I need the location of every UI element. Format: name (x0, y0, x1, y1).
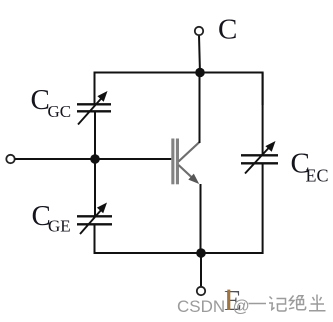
capacitor C_GE (variable) (77, 203, 112, 235)
wire: top horizontal rail (95, 73, 263, 106)
wire: gate horizontal (15, 158, 171, 160)
node: gate junction (90, 154, 100, 164)
wire: bottom horizontal rail (95, 164, 263, 254)
watermark chinese char jue (289, 295, 306, 310)
node: bottom junction (196, 248, 206, 258)
watermark chinese char yi (249, 303, 267, 305)
svg-text:EC: EC (306, 166, 329, 186)
wire: left branch middle segment (94, 113, 96, 216)
node: top junction (195, 68, 205, 78)
svg-text:GE: GE (48, 217, 71, 236)
terminal G circle (6, 155, 14, 163)
terminal E circle (197, 287, 205, 295)
svg-text:@: @ (233, 297, 250, 316)
transistor Q1 (IGBT symbol, gray) (171, 139, 199, 185)
wire: C terminal lead down to top node (199, 35, 200, 74)
wire: bottom node down to E terminal (200, 253, 202, 287)
svg-text:C: C (218, 14, 237, 46)
wire: right branch upper segment (262, 73, 264, 156)
capacitor C_EC (variable) (241, 141, 278, 174)
wire: collector vertical into IGBT (199, 73, 201, 144)
capacitor C_GC (variable) (77, 91, 111, 125)
svg-text:CSDN: CSDN (177, 297, 225, 316)
svg-text:GC: GC (48, 102, 72, 121)
watermark chinese char chen (309, 295, 326, 311)
terminal C circle (195, 27, 203, 35)
watermark chinese char ji (269, 297, 286, 312)
wire: emitter vertical from IGBT to bottom node (200, 184, 202, 253)
